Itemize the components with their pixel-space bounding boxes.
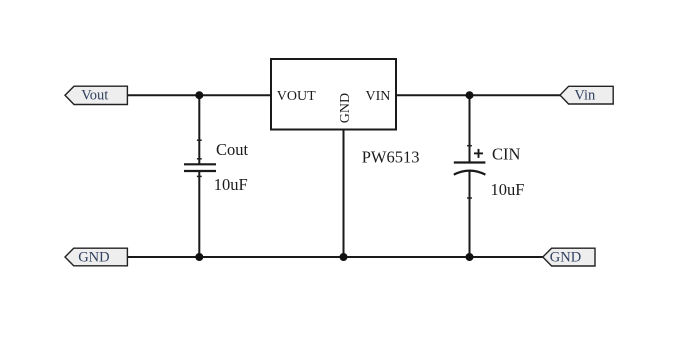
svg-text:GND: GND xyxy=(78,250,109,266)
svg-text:10uF: 10uF xyxy=(214,175,248,194)
svg-text:Vout: Vout xyxy=(81,88,108,104)
svg-text:VIN: VIN xyxy=(366,89,391,104)
svg-text:Vin: Vin xyxy=(574,88,596,104)
svg-text:Cout: Cout xyxy=(216,140,249,159)
svg-text:10uF: 10uF xyxy=(491,180,525,199)
svg-text:GND: GND xyxy=(550,250,581,266)
svg-text:GND: GND xyxy=(338,93,353,123)
svg-text:VOUT: VOUT xyxy=(277,89,316,104)
svg-text:CIN: CIN xyxy=(492,145,521,164)
svg-text:PW6513: PW6513 xyxy=(362,148,420,167)
